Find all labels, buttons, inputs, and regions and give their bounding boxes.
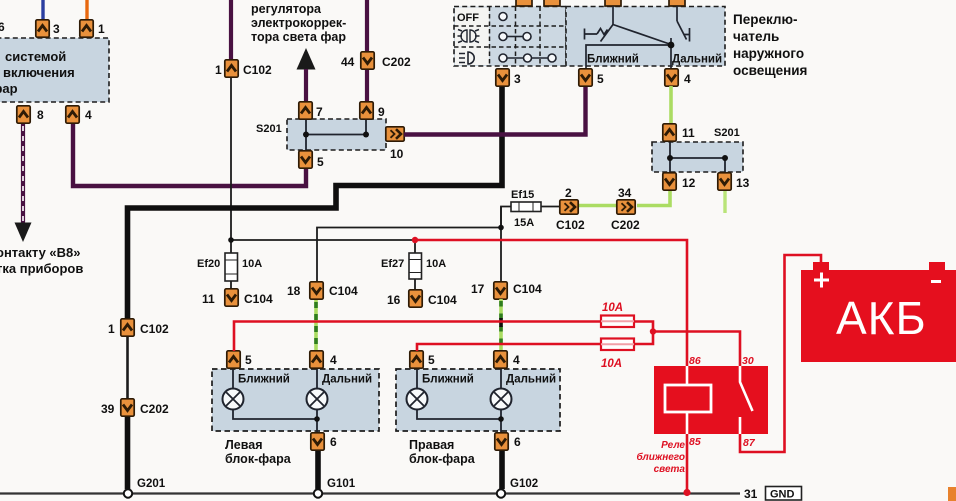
wire red B: fuse to right lamp pin 5 (417, 344, 601, 351)
switch low-beam contact (585, 6, 672, 45)
svg-text:17: 17 (471, 282, 485, 296)
wire purple arrow to S201 pin 7 (304, 69, 308, 102)
wire thick black: switch pin 3 to ground G201 (128, 85, 503, 319)
connector left pin 4 (310, 351, 323, 368)
connector right pin 6 (495, 433, 508, 450)
wire thin black between C102-1 and C202-39 (126, 336, 129, 399)
svg-text:G101: G101 (327, 478, 356, 490)
arrow up (электрокорректор) (297, 48, 316, 70)
wire green: switch pin 4 to S201 pin 11 (669, 86, 673, 123)
ground G101 (314, 489, 322, 497)
switch output wiring (586, 45, 671, 69)
connector left pin 5 (227, 351, 240, 368)
svg-text:G102: G102 (510, 478, 538, 490)
connector C102 pin 2 (560, 200, 578, 214)
lamp: right high beam (491, 389, 512, 410)
svg-text:18: 18 (287, 284, 301, 298)
wire purple C202-44 to S201 pin 9 (365, 70, 369, 102)
junction (498, 225, 504, 231)
module box: система включения фар (top-left, cut off) (0, 38, 109, 102)
svg-text:системой: системой (5, 49, 66, 64)
svg-text:C102: C102 (243, 63, 272, 77)
svg-text:1: 1 (215, 63, 222, 77)
svg-text:OFF: OFF (457, 12, 479, 24)
svg-text:АКБ: АКБ (836, 292, 927, 344)
wire purple from pin 4 to S201 pin 5 (73, 123, 306, 186)
connector C202 pin 44 (361, 52, 374, 69)
svg-text:1: 1 (108, 322, 115, 336)
svg-text:Ближний: Ближний (422, 374, 474, 386)
svg-text:31: 31 (744, 487, 758, 501)
connector C202 pin 34 (617, 200, 635, 214)
wire green: S201 pin 12 to C202-34 (637, 191, 670, 206)
relay block S201 (left) (287, 119, 386, 150)
wire purple from S201 pin 10 to switch pin 5 (404, 86, 586, 135)
svg-text:Дальний: Дальний (672, 54, 722, 66)
svg-text:4: 4 (513, 353, 520, 367)
svg-text:39: 39 (101, 402, 115, 416)
svg-text:34: 34 (618, 186, 632, 200)
wire green dashed: C104-18 to left lamp pin 4 (314, 300, 318, 351)
svg-text:C102: C102 (140, 322, 169, 336)
svg-text:11: 11 (682, 126, 695, 140)
wire red: coil feed from Ef27 node to relay pin 86 (415, 240, 687, 366)
lamp: right low beam (407, 389, 428, 410)
wire thick black right pin6 to G102 (499, 451, 505, 489)
connector C104 pin 17 (494, 282, 507, 299)
fuse Ef20 10A (225, 253, 238, 281)
connector right pin 5 (410, 351, 423, 368)
svg-text:ближнего: ближнего (636, 451, 685, 463)
connector C104 pin 16 (409, 290, 422, 307)
junction (363, 132, 369, 138)
svg-text:чатель: чатель (733, 29, 779, 44)
junction (228, 237, 234, 243)
svg-text:C104: C104 (244, 292, 273, 306)
battery terminal - (929, 262, 945, 271)
ground bus line (0, 492, 740, 494)
connector C104 pin 18 (310, 282, 323, 299)
ground G102 (497, 489, 505, 497)
connector (top edge) (516, 0, 532, 6)
connector left pin 6 (311, 433, 324, 450)
svg-text:C202: C202 (611, 218, 640, 232)
svg-text:16: 16 (387, 293, 401, 307)
svg-text:5: 5 (428, 353, 435, 367)
connector 4 (66, 106, 79, 123)
right lamp internal wiring (417, 368, 501, 432)
svg-text:C104: C104 (513, 282, 542, 296)
wire thick black left pin6 to G101 (315, 451, 321, 489)
svg-text:C104: C104 (428, 293, 457, 307)
svg-text:10A: 10A (602, 302, 623, 314)
relay (реле ближнего света) (654, 366, 768, 434)
wire green dashed: C104-17 to right lamp pin 4 (499, 299, 503, 351)
wire Ef27 to C104-16 (414, 279, 416, 289)
connector switch pin 4 (665, 69, 678, 86)
wire green: C102-2 to C202-34 (579, 204, 617, 208)
connector C104 pin 11 (225, 289, 238, 306)
fuse Ef27 10A (409, 253, 422, 279)
wire thin black: Ef15 feed (501, 207, 560, 228)
svg-text:5: 5 (245, 353, 252, 367)
connector (top edge) (544, 0, 560, 6)
svg-text:освещения: освещения (733, 63, 807, 78)
junction (668, 42, 675, 49)
left headlamp box: Левая блок-фара (212, 369, 379, 431)
svg-text:8: 8 (37, 108, 44, 122)
svg-text:Дальний: Дальний (506, 374, 556, 386)
svg-text:4: 4 (85, 108, 92, 122)
svg-text:C104: C104 (329, 284, 358, 298)
wire thin black rail y240: Ef20 / Ef27 feed (231, 240, 415, 253)
wire thin black below C102-1 down to node at y240 (230, 78, 232, 240)
connector S201 pin 5 (299, 151, 312, 168)
svg-text:9: 9 (378, 105, 385, 119)
wire orange (to pin 1) (85, 0, 88, 20)
relay block S201 (right) (652, 142, 743, 172)
svg-text:блок-фара: блок-фара (225, 452, 292, 466)
svg-text:4: 4 (684, 72, 691, 86)
svg-text:5: 5 (317, 155, 324, 169)
svg-text:85: 85 (689, 436, 701, 448)
junction (303, 132, 309, 138)
connector C202 pin 39 (121, 399, 134, 416)
svg-text:4: 4 (330, 353, 337, 367)
wire thick black below C202-39 to G201 (125, 416, 131, 489)
svg-text:3: 3 (53, 22, 60, 36)
svg-text:Ef27: Ef27 (381, 258, 404, 270)
connector (top edge) (669, 0, 685, 6)
connector 8 (17, 106, 30, 123)
junction (722, 155, 728, 161)
wire blue (to pin 3) (41, 0, 44, 20)
svg-text:S201: S201 (714, 127, 740, 139)
svg-text:блок-фара: блок-фара (409, 452, 476, 466)
switch high-beam contact (671, 6, 690, 45)
wire red: fuse outputs join to relay pin 30 (634, 322, 740, 367)
svg-text:тора света фар: тора света фар (251, 30, 346, 44)
S201 internal wiring (670, 142, 725, 172)
left lamp internal wiring (233, 368, 317, 432)
svg-text:C102: C102 (556, 218, 585, 232)
junction red (412, 237, 418, 243)
connector S201 pin 12 (663, 173, 676, 190)
ground G201 (124, 489, 132, 497)
svg-text:10A: 10A (601, 358, 622, 370)
junction (498, 416, 504, 422)
connector S201 pin 13 (718, 173, 731, 190)
svg-text:регулятора: регулятора (251, 2, 322, 16)
lamp: left low beam (223, 389, 244, 410)
relay coil (686, 366, 689, 434)
svg-text:12: 12 (682, 176, 696, 190)
junction (314, 416, 320, 422)
svg-text:Дальний: Дальний (322, 374, 372, 386)
svg-text:C202: C202 (382, 55, 411, 69)
svg-text:наружного: наружного (733, 46, 804, 61)
wire red A: fuse to left lamp pin 5 (234, 322, 601, 352)
svg-text:3: 3 (514, 72, 521, 86)
svg-text:10A: 10A (242, 258, 262, 270)
svg-text:включения: включения (3, 65, 75, 80)
svg-text:10A: 10A (426, 258, 446, 270)
wire purple-white dashed from pin 8 (21, 123, 25, 223)
switch box: переключатель наружного освещения (454, 7, 566, 67)
connector right pin 4 (494, 351, 507, 368)
wire Ef20 to C104-11 (230, 281, 232, 288)
wire red: battery + to relay pin 87 (740, 255, 821, 452)
svg-text:10: 10 (390, 147, 404, 161)
icon: headlamp (459, 52, 474, 64)
wire red: relay pin 85 to ground (686, 434, 689, 492)
connector S201 pin 10 (386, 127, 404, 141)
wire purple above connector C102-1 (229, 0, 233, 59)
svg-text:86: 86 (689, 355, 701, 367)
connector 1 (80, 20, 93, 37)
svg-text:Правая: Правая (409, 438, 454, 452)
svg-text:G201: G201 (137, 478, 166, 490)
svg-text:электрокоррек-: электрокоррек- (251, 16, 346, 30)
svg-text:света: света (654, 464, 686, 475)
svg-text:5: 5 (597, 72, 604, 86)
wire thin black rail y227 to fuses C104-18 / C104-17 (317, 207, 501, 282)
relay contact (740, 366, 753, 434)
connector switch pin 3 (496, 69, 509, 86)
svg-text:6: 6 (330, 435, 337, 449)
svg-text:Переклю-: Переклю- (733, 12, 798, 27)
switch position contacts (499, 13, 556, 63)
svg-text:Реле: Реле (661, 440, 685, 451)
svg-text:7: 7 (316, 105, 323, 119)
svg-text:GND: GND (770, 489, 795, 501)
wire green stub below S201 pin 13 (723, 191, 726, 213)
connector S201 pin 7 (299, 102, 312, 119)
svg-text:13: 13 (736, 176, 750, 190)
junction red (pin 85 to ground) (683, 489, 690, 496)
svg-text:30: 30 (742, 355, 754, 367)
S201 internal wiring (306, 119, 366, 150)
icon: parking lights (458, 30, 480, 43)
connector (top edge) (605, 0, 621, 6)
connector S201 pin 9 (360, 102, 373, 119)
connector S201 pin 11 (663, 124, 676, 141)
battery АКБ (801, 270, 956, 362)
fuse red 10A (upper) (601, 316, 634, 328)
svg-text:S201: S201 (256, 123, 282, 135)
right headlamp box: Правая блок-фара (396, 369, 560, 431)
fuse Ef15 15A (511, 202, 541, 212)
svg-text:Ef15: Ef15 (511, 189, 534, 201)
junction (667, 155, 673, 161)
svg-text:C202: C202 (140, 402, 169, 416)
battery terminal + (813, 262, 829, 271)
fuse red 10A (lower) (601, 339, 634, 351)
video progress mark (bottom right) (948, 487, 956, 501)
svg-text:Ближний: Ближний (238, 374, 290, 386)
connector switch pin 5 (579, 69, 592, 86)
svg-text:2: 2 (565, 186, 572, 200)
lamp: left high beam (307, 389, 328, 410)
svg-text:Ef20: Ef20 (197, 258, 220, 270)
svg-text:онтакту «В8»: онтакту «В8» (0, 245, 81, 260)
connector C102 pin 1 (top) (225, 60, 238, 77)
connector C102 pin 1 (left) (121, 319, 134, 336)
grid separators (454, 7, 566, 67)
svg-text:15A: 15A (514, 217, 534, 229)
svg-text:Ближний: Ближний (587, 54, 639, 66)
svg-text:Левая: Левая (225, 438, 263, 452)
svg-text:6: 6 (514, 435, 521, 449)
svg-text:тка приборов: тка приборов (0, 261, 83, 276)
wire purple above C202-44 (365, 0, 369, 52)
connector 3 (36, 20, 49, 37)
svg-text:44: 44 (341, 55, 355, 69)
svg-text:87: 87 (743, 437, 756, 449)
junction red (650, 328, 656, 334)
svg-text:11: 11 (202, 292, 215, 306)
svg-text:6: 6 (0, 20, 5, 34)
svg-text:1: 1 (98, 22, 105, 36)
svg-text:фар: фар (0, 81, 18, 96)
arrow to контакт B8 (15, 223, 32, 243)
